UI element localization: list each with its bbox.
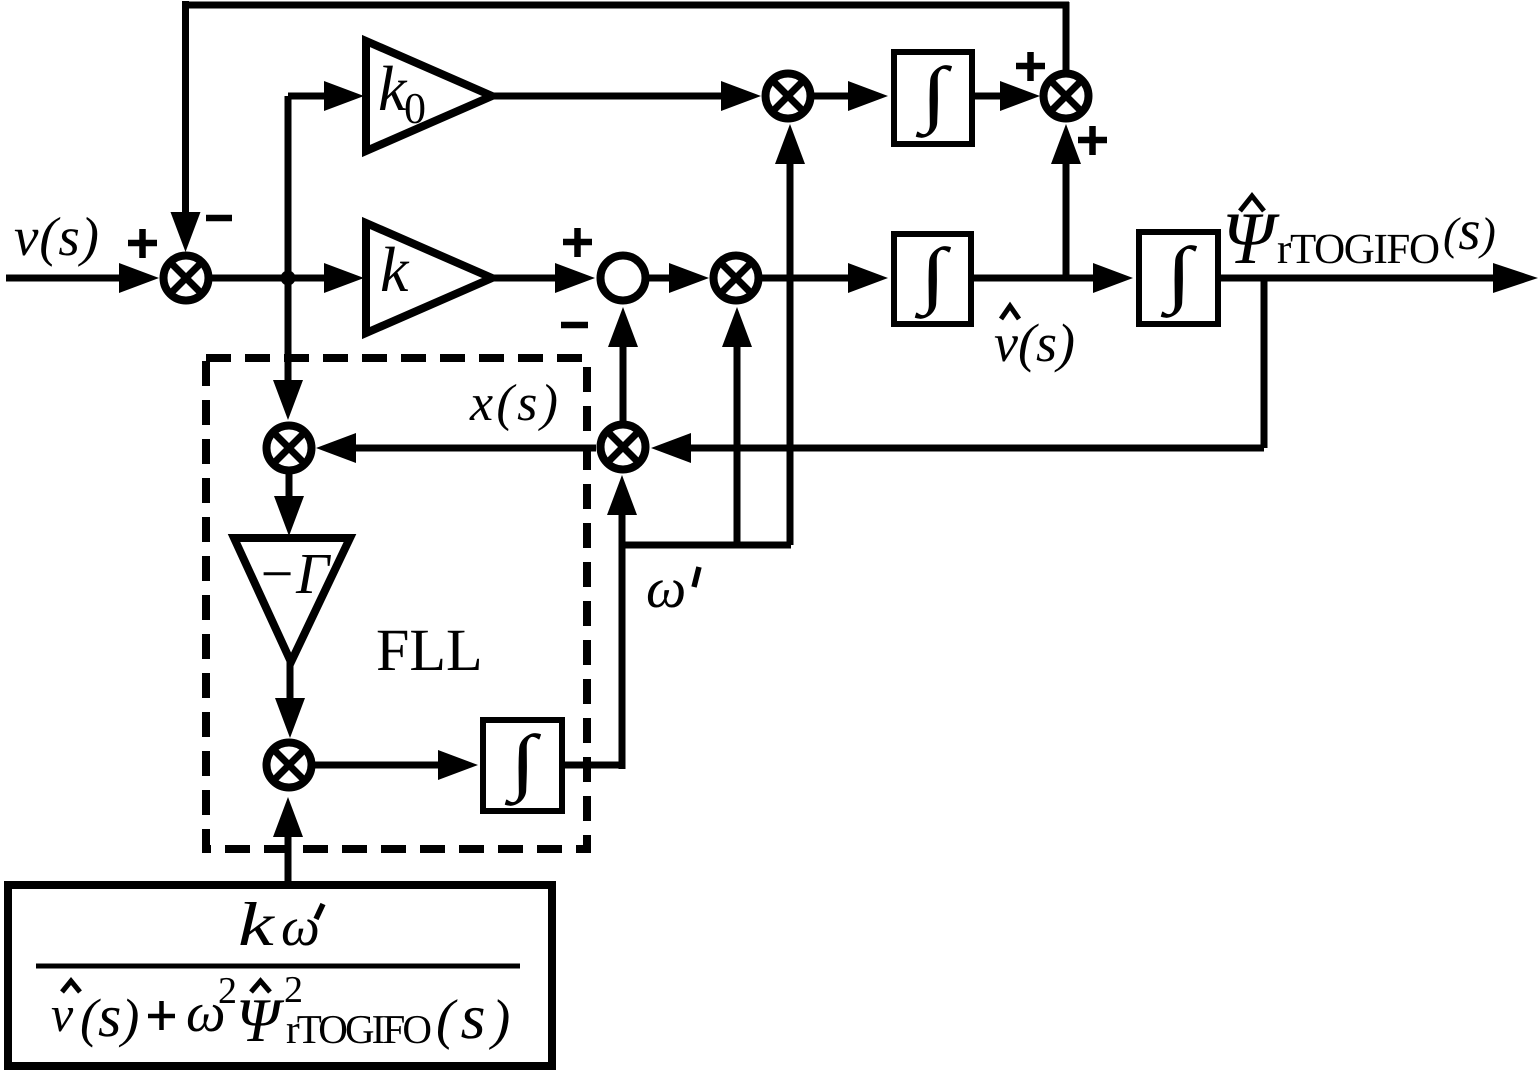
wire I4 output to omega-prime riser [565, 762, 625, 769]
gain k triangle [366, 223, 492, 333]
wire v-hat junction riser into S3 [1063, 162, 1070, 278]
svg-text:0: 0 [404, 84, 426, 133]
wire omega-prime horizontal distribution [619, 542, 791, 549]
wire M5 to integrator I4 [315, 762, 440, 769]
wire to gain k0 [288, 93, 326, 100]
svg-text:x(s): x(s) [469, 375, 558, 432]
summer S3 [1044, 74, 1089, 119]
svg-text:v(s): v(s) [14, 206, 99, 267]
multiplier M5 [267, 743, 312, 788]
formula fraction bar [36, 964, 520, 969]
svg-text:2: 2 [218, 970, 237, 1012]
wire S2 to multiplier M2 [649, 275, 671, 282]
svg-text:(s): (s) [1443, 199, 1496, 262]
multiplier M3 [601, 425, 646, 470]
FLL dashed box [206, 358, 587, 849]
gain k0 triangle [366, 41, 492, 151]
integrator I1 [894, 52, 972, 144]
wire S1 to gain k [212, 275, 328, 282]
multiplier M4 [267, 426, 312, 471]
wire k to summer S2 [492, 275, 557, 282]
svg-text:(s): (s) [80, 983, 139, 1049]
summer S1 [164, 256, 209, 301]
wire input v(s) [6, 275, 122, 282]
wire M4 down to gain -Gamma [286, 474, 293, 498]
svg-text:(s): (s) [436, 981, 516, 1052]
wire k0 to multiplier M1 [492, 93, 723, 100]
wire into M4 from junction [273, 380, 303, 420]
svg-text:FLL: FLL [376, 617, 483, 683]
plus sign bottom-right of S3 [1078, 137, 1107, 144]
wire M2 to integrator I2 [762, 275, 850, 282]
svg-text:ω: ω [646, 557, 686, 620]
wire feedback tap from output down and left to M3 [1261, 275, 1268, 448]
node formula denominator [62, 981, 80, 992]
plus sign top-left of S3 [1016, 63, 1045, 70]
svg-text:2: 2 [284, 969, 303, 1011]
svg-text:Ψ: Ψ [236, 987, 285, 1055]
wire omega-prime riser into M3 [619, 513, 626, 541]
summer S2 (plain circle) [601, 256, 646, 301]
svg-text:rTOGIFO: rTOGIFO [286, 1006, 432, 1052]
svg-text:−Γ: −Γ [257, 541, 331, 606]
integrator I3 [1139, 232, 1218, 324]
svg-text:rTOGIFO: rTOGIFO [1277, 226, 1440, 273]
wire output [1221, 275, 1500, 282]
wire omega-prime riser into M1 [787, 162, 794, 545]
wire I2 to integrator I3 [974, 275, 1095, 282]
wire formula box output up into M5 [285, 835, 292, 881]
wire M3 left to M4 [354, 445, 596, 452]
node junction dot [281, 271, 296, 286]
gain -Gamma triangle [234, 538, 350, 662]
minus sign at summer S1 [206, 215, 232, 222]
wire M1 to integrator I1 [814, 93, 850, 100]
wire omega-prime riser into M2 [734, 345, 741, 545]
wire I1 to summer S3 [975, 93, 1002, 100]
wire branch vertical through junction (to k0 and FLL) [285, 96, 292, 383]
wire top feedback loop [182, 1, 189, 216]
wire Gamma to M5 [287, 661, 294, 700]
multiplier M2 [714, 256, 759, 301]
multiplier M1 [766, 74, 811, 119]
formula box [8, 885, 552, 1066]
svg-text:Ψ: Ψ [1222, 198, 1280, 280]
integrator I2 [894, 234, 971, 324]
wire M3 up into S2 [620, 345, 627, 421]
svg-text:k: k [238, 891, 276, 959]
svg-text:k: k [380, 234, 410, 305]
svg-text:ω: ω [281, 896, 320, 957]
minus sign at summer S2 [561, 322, 588, 329]
plus sign at summer S1 [128, 240, 157, 247]
svg-text:v(s): v(s) [994, 313, 1075, 373]
svg-text:v: v [51, 986, 74, 1042]
plus sign at summer S2 [563, 239, 592, 246]
integrator I4 [483, 720, 562, 811]
